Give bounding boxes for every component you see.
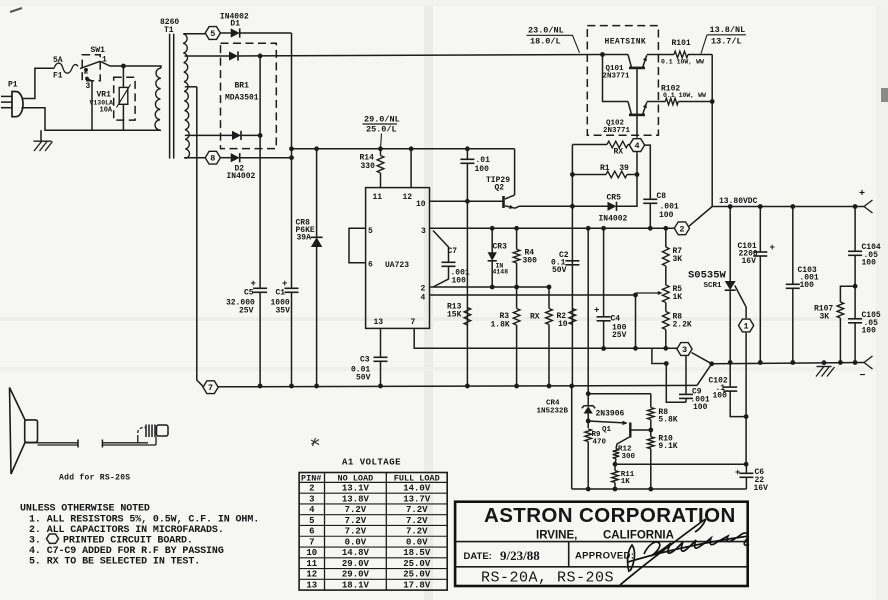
svg-text:MDA3501: MDA3501 — [225, 94, 259, 103]
svg-text:4148: 4148 — [493, 269, 509, 276]
junction — [289, 384, 294, 389]
junction — [601, 226, 606, 231]
svg-text:SW1: SW1 — [91, 46, 106, 55]
svg-text:2: 2 — [421, 285, 426, 294]
junction — [570, 172, 575, 177]
capacitor C8 .001 100 — [645, 145, 651, 199]
resistor R10 9.1K — [650, 430, 652, 437]
wire — [647, 54, 674, 56]
transistor Q1 2N3906 — [588, 421, 626, 423]
svg-text:3: 3 — [86, 82, 91, 91]
svg-text:470: 470 — [593, 439, 607, 447]
junction — [648, 428, 653, 433]
svg-text:29.0/NL: 29.0/NL — [364, 115, 400, 125]
svg-text:F1: F1 — [53, 72, 63, 81]
junction — [289, 146, 294, 151]
svg-text:3.: 3. — [29, 535, 41, 546]
connector P1 — [12, 92, 23, 117]
heatsink box — [587, 26, 658, 136]
junction — [258, 384, 263, 389]
switch SW1 — [84, 68, 88, 72]
svg-text:3K: 3K — [673, 255, 683, 264]
wire — [184, 33, 205, 35]
capacitor C104 .05 100 — [854, 207, 856, 252]
wire — [259, 56, 261, 288]
wire pin2 — [430, 286, 550, 288]
junction — [409, 146, 414, 151]
svg-text:14.0V: 14.0V — [403, 484, 431, 494]
resistor R7 3K — [665, 228, 667, 247]
junction — [465, 384, 470, 389]
wire — [22, 68, 55, 98]
junction — [586, 226, 591, 231]
junction — [121, 64, 126, 69]
svg-text:D1: D1 — [230, 20, 240, 29]
svg-text:2: 2 — [84, 68, 89, 77]
svg-text:+: + — [282, 279, 287, 289]
wire pin4 — [430, 294, 636, 296]
TVS diode CR8 P6KE39A — [316, 149, 318, 238]
svg-text:APPROVED:: APPROVED: — [575, 551, 634, 562]
junction — [853, 360, 858, 365]
svg-text:DATE:: DATE: — [464, 551, 492, 562]
junction — [744, 462, 749, 467]
bridge BR1 MDA3501 diode B — [232, 131, 241, 140]
svg-text:39A: 39A — [297, 234, 312, 243]
signature — [620, 519, 749, 585]
junction — [853, 284, 858, 289]
svg-text:25V: 25V — [612, 331, 627, 340]
svg-text:5: 5 — [210, 29, 215, 39]
svg-text:C3: C3 — [360, 356, 370, 365]
connector plug RS-20S — [137, 435, 139, 443]
svg-text:CR4: CR4 — [546, 400, 560, 408]
junction — [648, 226, 653, 231]
junction — [586, 391, 591, 396]
svg-text:10: 10 — [306, 548, 317, 558]
svg-text:2: 2 — [679, 224, 684, 234]
svg-text:14.8V: 14.8V — [342, 548, 370, 558]
svg-text:5A: 5A — [53, 56, 63, 65]
resistor R101 0.1 10W WW — [674, 51, 688, 58]
svg-text:3K: 3K — [820, 313, 830, 322]
svg-text:18.5V: 18.5V — [403, 548, 431, 558]
transistor Q101 2N3771 — [628, 55, 632, 68]
svg-text:13.7V: 13.7V — [403, 494, 431, 504]
svg-text:0.1 10W, WW: 0.1 10W, WW — [663, 92, 706, 99]
diode D1 IN4002 — [231, 28, 240, 37]
svg-text:V130LA: V130LA — [90, 100, 114, 107]
svg-text:UA723: UA723 — [385, 261, 409, 270]
svg-text:C8: C8 — [657, 192, 667, 201]
svg-text:13.8/NL: 13.8/NL — [710, 25, 746, 35]
wire — [101, 62, 162, 69]
svg-text:7.2V: 7.2V — [406, 527, 428, 537]
wire — [291, 33, 293, 288]
svg-text:Q1: Q1 — [602, 426, 612, 434]
svg-text:C4: C4 — [611, 315, 621, 324]
wire — [238, 55, 603, 57]
svg-text:13.1V: 13.1V — [342, 484, 370, 494]
wire — [241, 134, 260, 136]
resistor R2 10 — [569, 309, 576, 325]
wire pin10 — [430, 200, 503, 202]
wire — [678, 101, 712, 103]
svg-text:4: 4 — [634, 141, 639, 151]
junction — [378, 146, 383, 151]
capacitor C103 .001 100 — [792, 207, 794, 285]
svg-text:23.0/NL: 23.0/NL — [528, 26, 564, 36]
svg-text:7.2V: 7.2V — [345, 516, 367, 526]
wire — [692, 353, 712, 364]
svg-text:5: 5 — [309, 516, 314, 526]
wire emitter to CR5 — [519, 205, 608, 207]
junction — [709, 361, 714, 366]
svg-text:1K: 1K — [621, 478, 631, 486]
svg-text:4: 4 — [309, 505, 315, 515]
wire — [184, 157, 205, 159]
speaker — [10, 388, 26, 475]
transformer T1 8260 primary — [155, 68, 161, 130]
svg-text:P1: P1 — [8, 81, 18, 90]
junction — [465, 199, 470, 204]
svg-text:+: + — [251, 279, 256, 289]
svg-text:9.1K: 9.1K — [658, 442, 677, 451]
node 4 — [629, 139, 644, 152]
svg-text:IN4002: IN4002 — [227, 172, 256, 181]
transformer T1 secondary — [183, 34, 190, 159]
capacitor C6 22 16V — [745, 464, 747, 473]
svg-text:5. RX TO BE SELECTED IN TEST.: 5. RX TO BE SELECTED IN TEST. — [29, 556, 200, 567]
transistor Q102 2N3771 — [603, 55, 629, 102]
transformer T1 core — [169, 34, 171, 159]
junction — [514, 384, 519, 389]
svg-text:NO LOAD: NO LOAD — [338, 473, 374, 483]
svg-text:11: 11 — [373, 193, 383, 202]
svg-text:100: 100 — [452, 277, 467, 286]
svg-text:RS-20A, RS-20S: RS-20A, RS-20S — [481, 570, 614, 587]
junction — [547, 285, 552, 290]
svg-text:FULL LOAD: FULL LOAD — [394, 473, 440, 483]
svg-text:6: 6 — [368, 261, 373, 270]
svg-text:C5: C5 — [244, 289, 254, 298]
svg-text:S0535W: S0535W — [688, 270, 727, 282]
fuse F1 5A — [54, 63, 78, 73]
svg-text:100: 100 — [693, 403, 708, 412]
junction — [728, 204, 733, 209]
svg-text:13.80VDC: 13.80VDC — [719, 197, 758, 206]
svg-text:UNLESS OTHERWISE NOTED: UNLESS OTHERWISE NOTED — [20, 504, 150, 515]
junction — [600, 52, 605, 57]
svg-text:7.2V: 7.2V — [406, 505, 428, 515]
capacitor C4 100 25V — [603, 228, 605, 316]
wire — [571, 386, 573, 489]
terminal + output — [864, 200, 873, 207]
svg-text:C7: C7 — [448, 247, 458, 256]
svg-text:2N3906: 2N3906 — [596, 410, 625, 419]
svg-text:0.1 10W, WW: 0.1 10W, WW — [661, 59, 704, 66]
junction — [790, 360, 795, 365]
junction — [258, 54, 263, 59]
svg-text:10A: 10A — [100, 107, 113, 115]
junction — [314, 146, 319, 151]
wire — [220, 157, 230, 159]
capacitor C102 .1 100 — [723, 386, 737, 388]
varistor VR1 V130LA — [122, 66, 124, 87]
svg-text:1: 1 — [744, 322, 749, 332]
diode D2 IN4002 — [231, 153, 240, 162]
svg-text:7: 7 — [309, 537, 314, 547]
svg-text:2N3771: 2N3771 — [603, 73, 631, 81]
wire — [617, 152, 638, 206]
svg-text:9/23/88: 9/23/88 — [500, 548, 540, 563]
capacitor C7 .001 100 — [433, 231, 449, 263]
diode CR5 IN4002 — [608, 202, 617, 211]
svg-text:12: 12 — [403, 193, 413, 202]
svg-text:100: 100 — [800, 281, 815, 290]
wire wiper — [635, 293, 637, 348]
svg-text:330: 330 — [361, 162, 376, 171]
junction — [514, 226, 519, 231]
svg-text:16V: 16V — [754, 484, 769, 493]
svg-text:7: 7 — [411, 318, 416, 327]
junction — [758, 204, 763, 209]
zener CR4 1N5232B — [587, 228, 589, 406]
svg-text:T1: T1 — [164, 26, 174, 35]
wire jog — [652, 348, 666, 363]
resistor R13 15K — [464, 308, 471, 326]
svg-text:Q2: Q2 — [495, 184, 505, 193]
bridge BR1 MDA3501 diode A — [229, 51, 238, 60]
svg-text:100: 100 — [862, 259, 877, 268]
svg-text:7.2V: 7.2V — [406, 516, 428, 526]
wire — [603, 54, 629, 56]
wire base — [636, 68, 638, 138]
node 2 — [674, 222, 689, 235]
svg-text:5: 5 — [368, 227, 373, 236]
junction — [663, 226, 668, 231]
capacitor C5 32000 25V — [253, 287, 267, 289]
svg-text:1K: 1K — [673, 293, 683, 302]
svg-text:29.0V: 29.0V — [342, 559, 370, 569]
svg-text:100: 100 — [862, 327, 877, 336]
ground — [822, 360, 827, 365]
junction — [314, 384, 319, 389]
junction — [648, 487, 653, 492]
junction — [258, 133, 263, 138]
wire — [745, 333, 747, 417]
svg-text:13: 13 — [374, 318, 384, 327]
svg-text:13.7/L: 13.7/L — [711, 37, 742, 47]
svg-text:2N3771: 2N3771 — [603, 127, 631, 135]
wire — [220, 32, 230, 34]
svg-text:25.0V: 25.0V — [403, 559, 431, 569]
title block — [455, 502, 748, 586]
junction — [790, 204, 795, 209]
capacitor C9 .001 100 — [666, 364, 686, 403]
svg-text:PRINTED CIRCUIT BOARD.: PRINTED CIRCUIT BOARD. — [63, 535, 193, 546]
svg-text:100: 100 — [713, 392, 728, 401]
svg-text:3: 3 — [421, 227, 426, 236]
junction — [570, 204, 575, 209]
resistor R3 1.8K — [516, 287, 518, 309]
wire ground rail — [218, 385, 697, 386]
svg-text:100: 100 — [475, 165, 490, 174]
junction — [758, 360, 763, 365]
resistor R102 0.1 10W WW — [665, 98, 678, 105]
svg-text:Add for RS-20S: Add for RS-20S — [59, 474, 130, 483]
node 5 — [205, 27, 220, 40]
svg-text:12: 12 — [306, 570, 317, 580]
junction — [601, 346, 606, 351]
wire pin3 node2 net — [430, 227, 675, 229]
wire speaker leads — [25, 442, 78, 444]
svg-text:35V: 35V — [276, 307, 291, 316]
svg-text:8: 8 — [210, 154, 215, 164]
junction — [613, 487, 618, 492]
svg-text:RX: RX — [614, 148, 624, 157]
svg-text:4: 4 — [421, 294, 426, 303]
resistor R4 300 — [516, 228, 518, 249]
wire — [185, 134, 232, 136]
terminal - output — [864, 356, 873, 363]
capacitor C101 2200 16V — [759, 207, 761, 253]
junction — [838, 360, 843, 365]
svg-text:−: − — [860, 371, 866, 382]
svg-text:1.8K: 1.8K — [491, 321, 510, 330]
svg-text:4. C7-C9 ADDED FOR R.F BY PASS: 4. C7-C9 ADDED FOR R.F BY PASSING — [29, 546, 224, 557]
svg-text:CALIFORNIA: CALIFORNIA — [603, 530, 674, 542]
svg-text:1. ALL RESISTORS 5%, 0.5W, C.F: 1. ALL RESISTORS 5%, 0.5W, C.F. IN OHM. — [29, 514, 259, 525]
wire negative rail — [712, 363, 864, 364]
wire — [240, 157, 292, 159]
wire — [711, 55, 713, 207]
junction — [633, 293, 638, 298]
svg-text:50V: 50V — [552, 266, 567, 275]
resistor R107 3K — [840, 286, 855, 302]
junction — [633, 346, 638, 351]
svg-text:6: 6 — [309, 527, 314, 537]
capacitor C1 1000 35V — [285, 287, 299, 289]
capacitor C2 0.1 50V — [565, 260, 579, 262]
svg-text:RX: RX — [530, 313, 540, 322]
svg-text:+: + — [770, 243, 775, 253]
node 7 — [203, 381, 218, 394]
diode CR3 1N4148 — [491, 228, 493, 252]
svg-text:SCR1: SCR1 — [704, 282, 723, 290]
svg-text:PIN#: PIN# — [301, 473, 321, 483]
svg-text:+: + — [594, 306, 599, 316]
svg-text:2: 2 — [309, 484, 314, 494]
wire pins 5-6 loop — [349, 228, 366, 262]
svg-text:100: 100 — [659, 211, 674, 220]
svg-text:2.2K: 2.2K — [673, 321, 692, 330]
junction — [586, 487, 591, 492]
svg-text:R1 39: R1 39 — [600, 164, 629, 173]
svg-text:0.0V: 0.0V — [406, 537, 428, 547]
svg-text:IN4002: IN4002 — [599, 215, 628, 224]
svg-text:R101: R101 — [672, 39, 691, 48]
ground — [40, 130, 42, 141]
node 8 — [205, 151, 220, 164]
wire — [197, 87, 204, 387]
svg-text:10: 10 — [558, 320, 568, 329]
svg-text:VR1: VR1 — [97, 91, 112, 100]
wire — [185, 86, 197, 88]
svg-text:3: 3 — [309, 494, 314, 504]
svg-text:IRVINE,: IRVINE, — [536, 530, 577, 542]
svg-text:7: 7 — [208, 383, 213, 393]
resistor R1 39 — [572, 174, 606, 176]
op-amp U1 UA723 — [366, 188, 430, 329]
junction — [547, 384, 552, 389]
junction — [490, 226, 495, 231]
wire — [185, 55, 230, 57]
junction — [635, 172, 640, 177]
capacitor bypass .01 100 — [466, 149, 468, 160]
svg-text:13: 13 — [306, 581, 317, 591]
resistor R12 300 — [613, 449, 620, 459]
svg-text:50V: 50V — [356, 374, 371, 383]
svg-text:1N5232B: 1N5232B — [537, 408, 569, 416]
svg-text:2. ALL CAPACITORS IN MICROFARA: 2. ALL CAPACITORS IN MICROFARADS. — [29, 525, 224, 536]
svg-text:300: 300 — [622, 453, 636, 461]
svg-text:C1: C1 — [276, 289, 286, 298]
svg-text:7.2V: 7.2V — [345, 505, 367, 515]
wire node2 to rail — [689, 207, 712, 227]
transistor Q2 TIP29 — [505, 195, 515, 199]
svg-text:10: 10 — [416, 200, 426, 209]
svg-text:17.8V: 17.8V — [403, 581, 431, 591]
junction — [569, 384, 574, 389]
node 3 — [677, 343, 692, 356]
junction — [613, 462, 618, 467]
junction — [378, 384, 383, 389]
wire — [745, 417, 747, 465]
wire — [615, 463, 746, 465]
junction — [465, 146, 470, 151]
wire — [514, 149, 516, 195]
svg-text:300: 300 — [523, 257, 538, 266]
capacitor C3 0.01 50V — [380, 328, 382, 357]
svg-text:0.0V: 0.0V — [345, 537, 367, 547]
junction — [853, 204, 858, 209]
svg-text:25.0/L: 25.0/L — [366, 125, 397, 135]
resistor RX select in test — [548, 287, 550, 309]
bridge BR1 box — [221, 43, 277, 148]
wire crowbar bottom rail — [572, 488, 747, 490]
resistor R14 330 — [380, 149, 382, 156]
wire 29V rail — [292, 148, 515, 150]
svg-text:18.0/L: 18.0/L — [530, 37, 561, 47]
junction — [664, 361, 669, 366]
svg-text:15K: 15K — [447, 311, 462, 320]
SCR1 S0535W — [729, 207, 731, 282]
wire pin12 — [410, 149, 412, 188]
resistor R8 2.2K — [665, 303, 667, 312]
svg-text:16V: 16V — [742, 257, 757, 266]
potentiometer R5 1K — [665, 266, 667, 285]
svg-text:18.1V: 18.1V — [342, 581, 370, 591]
svg-text:CR5: CR5 — [607, 194, 622, 203]
resistor R9 470 — [585, 429, 592, 442]
junction — [710, 99, 715, 104]
svg-text:CR3: CR3 — [493, 243, 508, 252]
svg-text:29.0V: 29.0V — [342, 570, 370, 580]
wire — [588, 393, 651, 395]
svg-text:+: + — [735, 468, 740, 478]
asterisk mark — [311, 438, 319, 446]
